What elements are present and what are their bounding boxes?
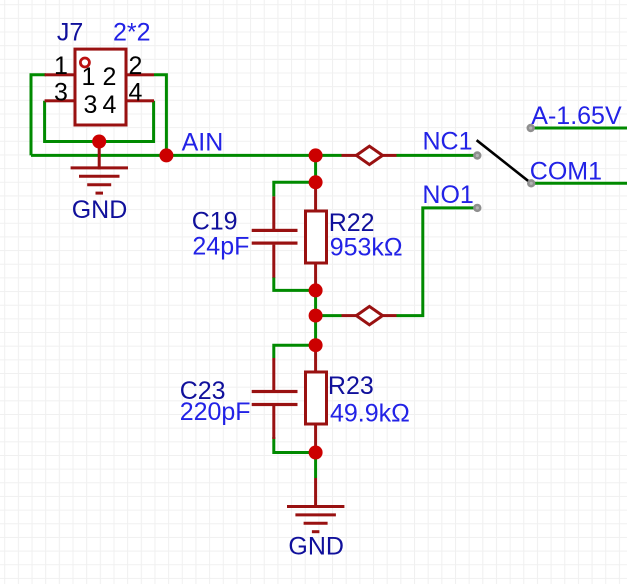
R23 bottom lead xyxy=(314,424,317,453)
junction dots xyxy=(92,135,322,460)
C23 top lead xyxy=(272,358,275,391)
R22 top lead xyxy=(314,182,317,210)
C23 bottom lead xyxy=(272,406,275,439)
junction node F xyxy=(309,309,323,323)
wire GND2 stub green part xyxy=(314,453,317,479)
svg-text:2: 2 xyxy=(129,52,143,80)
svg-text:J7: J7 xyxy=(57,19,83,47)
wire outer loop right xyxy=(154,75,166,156)
junction node E xyxy=(309,283,323,297)
diamond marker 1 xyxy=(342,146,397,164)
wire xyxy=(31,75,627,478)
svg-text:GND: GND xyxy=(288,533,344,561)
junction inner loop gnd xyxy=(92,135,106,149)
junction node H xyxy=(309,446,323,460)
wire AIN bus xyxy=(31,154,342,157)
R22 bottom lead xyxy=(314,263,317,291)
svg-text:NC1: NC1 xyxy=(423,128,473,156)
gnd1 stub xyxy=(98,142,101,170)
svg-text:NO1: NO1 xyxy=(422,181,473,209)
svg-text:AIN: AIN xyxy=(182,128,224,156)
ground GND1 xyxy=(71,142,128,225)
svg-text:COM1: COM1 xyxy=(530,158,602,186)
R22 body xyxy=(306,211,327,263)
svg-text:4: 4 xyxy=(129,79,143,107)
junction node D xyxy=(309,175,323,189)
svg-text:220pF: 220pF xyxy=(180,398,251,426)
svg-text:R23: R23 xyxy=(328,372,374,400)
junction node C xyxy=(309,148,323,162)
pin 4 stub xyxy=(127,99,154,102)
pin end dots gray xyxy=(473,124,535,212)
svg-text:1: 1 xyxy=(54,52,68,80)
pin A-1.65V xyxy=(527,124,535,132)
pin 2 stub xyxy=(127,73,154,76)
svg-text:49.9kΩ: 49.9kΩ xyxy=(330,400,410,428)
pin NC1 xyxy=(473,151,481,159)
capacitor C23 xyxy=(180,358,298,439)
C19 top plate xyxy=(252,229,298,232)
C19 bottom lead xyxy=(272,245,275,278)
wire node C to D xyxy=(314,155,317,182)
svg-text:1: 1 xyxy=(82,63,96,91)
C19 top lead xyxy=(272,196,275,229)
R23 body xyxy=(306,372,327,424)
connector J7 xyxy=(45,19,154,126)
diamond marker 2 xyxy=(342,306,397,324)
wire COM1 xyxy=(531,182,627,185)
C23 top plate xyxy=(252,390,298,393)
pin 1 stub xyxy=(45,73,74,76)
resistor R22 xyxy=(306,182,403,291)
C19 bottom plate xyxy=(252,242,298,245)
pin 3 stub xyxy=(45,99,74,102)
svg-text:2: 2 xyxy=(103,63,117,91)
svg-text:4: 4 xyxy=(103,91,117,119)
svg-text:24pF: 24pF xyxy=(192,232,249,260)
svg-text:953kΩ: 953kΩ xyxy=(330,234,403,262)
svg-text:A-1.65V: A-1.65V xyxy=(531,102,622,130)
svg-text:GND: GND xyxy=(72,196,128,224)
capacitor C19 xyxy=(192,196,298,277)
wire outer loop left xyxy=(31,75,46,156)
wire C19 bottom branch xyxy=(274,277,316,290)
svg-text:2*2: 2*2 xyxy=(113,19,151,47)
ground GND2 xyxy=(287,478,344,561)
pin 1 marker circle xyxy=(80,58,89,67)
pin COM1 xyxy=(527,179,535,187)
resistor R23 xyxy=(306,345,410,453)
wire diamond1 to NC1 xyxy=(397,154,478,157)
C23 bottom plate xyxy=(252,403,298,406)
pin dot centers xyxy=(476,126,533,209)
junction outer loop bus xyxy=(159,148,173,162)
wire C23 bottom branch xyxy=(274,437,316,453)
junction node G xyxy=(309,338,323,352)
wire NO1 xyxy=(397,208,478,316)
svg-text:3: 3 xyxy=(54,79,68,107)
wire A-1.65V xyxy=(531,127,627,130)
R23 top lead xyxy=(314,345,317,373)
wire C19 top branch xyxy=(274,182,316,196)
wire node E to G xyxy=(314,290,317,345)
J7 body xyxy=(75,49,126,125)
wire inner loop xyxy=(45,101,154,142)
wire C23 top branch xyxy=(274,345,316,358)
gnd2 stub xyxy=(314,478,317,507)
switch lever NC1-COM1 xyxy=(477,140,532,183)
wire node F to diamond2 xyxy=(316,314,342,317)
svg-text:3: 3 xyxy=(84,91,98,119)
pin NO1 xyxy=(473,204,481,212)
